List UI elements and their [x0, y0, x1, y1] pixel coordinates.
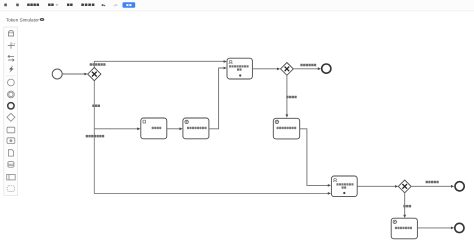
arrowhead into T3: [286, 114, 289, 117]
T1 text: [152, 127, 162, 129]
palette intermediate event: [7, 91, 14, 98]
toolbar text: create diagram (4 chars): [27, 4, 39, 7]
arrowhead into T1: [137, 127, 140, 130]
task T1: [141, 118, 167, 139]
T5 text: [395, 227, 412, 229]
palette space tool: [8, 55, 14, 61]
palette task: [7, 127, 15, 133]
toolbar save button: [123, 2, 136, 8]
toolbar bottom border: [0, 10, 474, 13]
palette subprocess: [7, 138, 15, 144]
palette gateway: [7, 113, 15, 121]
label under branch wire: [86, 135, 105, 138]
end event E2: [455, 182, 464, 191]
gateway G2: [281, 63, 294, 76]
wire start->G1: [62, 73, 85, 75]
T3 text: [277, 127, 297, 129]
task T4: [331, 176, 357, 197]
svg-text:Token Simulator: Token Simulator: [6, 17, 39, 22]
wire T2 -> Ttop (lower entry): [209, 68, 224, 129]
wire T1 -> T2: [167, 128, 180, 130]
palette container: [4, 27, 18, 196]
T4 text line2: [342, 186, 347, 188]
wire G1 bottom long down & right -> T4 lower: [94, 81, 328, 193]
arrowhead into E1: [318, 67, 321, 70]
end event E1: [322, 64, 331, 73]
palette data object: [8, 150, 13, 156]
palette start event: [7, 79, 14, 86]
arrowhead into T4 lower: [328, 192, 331, 195]
label above G1: [90, 63, 106, 66]
palette data store: [8, 162, 14, 168]
toolbar icon menu: [4, 4, 7, 7]
token simulator toggle: [6, 17, 44, 22]
end event E3: [455, 223, 464, 232]
arrowhead into T4 upper: [328, 184, 331, 187]
wire T3 -> T4 upper: [300, 129, 329, 186]
arrowhead into G2: [277, 68, 280, 71]
Ttop text line2: [237, 68, 242, 70]
label on G1 down wire (shen pi zhong): [92, 105, 100, 108]
toolbar text: collapse all (4 chars): [81, 4, 94, 7]
palette global connect tool: [9, 65, 14, 73]
Ttop loop marker: [239, 74, 241, 76]
task T5: [391, 218, 417, 239]
palette hand tool: [8, 31, 13, 36]
task Ttop: [227, 58, 252, 79]
arrowhead into T2: [179, 127, 182, 130]
wire T4 -> G3: [357, 185, 395, 187]
task T2: [183, 118, 209, 139]
toolbar icon redo (disabled): [114, 4, 117, 6]
wire T5 -> E3: [418, 227, 452, 229]
palette participant: [7, 175, 16, 180]
arrowhead into Ttop lower: [224, 67, 227, 70]
T2 text: [187, 127, 207, 129]
wire G3 -> E2: [411, 185, 451, 187]
toolbar background: [0, 0, 474, 11]
arrowhead into E2: [451, 185, 454, 188]
wire G1 branch -> T1: [94, 128, 138, 130]
wire G2 bottom -> T3: [286, 76, 288, 115]
wire Ttop -> G2: [253, 68, 278, 70]
label on G2 down wire: [286, 96, 296, 99]
arrowhead into G1: [84, 73, 87, 76]
gateway G3: [398, 180, 411, 193]
gateway G1: [88, 68, 101, 81]
toolbar text: import: [67, 4, 73, 7]
arrowhead into Ttop upper: [224, 60, 227, 63]
wire G1 top -> task Ttop (upper): [94, 61, 224, 67]
start event: [52, 69, 62, 79]
wire G3 bottom -> T5: [404, 193, 406, 215]
toolbar text: template dropdown: [48, 4, 58, 7]
label on G3 down wire: [403, 205, 411, 208]
palette group: [7, 186, 14, 192]
wire G2 -> end E1: [294, 68, 319, 70]
arrowhead into E3: [451, 227, 454, 230]
Ttop text line1: [229, 65, 249, 67]
palette lasso tool: [8, 42, 15, 48]
palette separator: [6, 75, 15, 78]
T4 text line1: [336, 183, 353, 185]
toolbar icon undo: [102, 4, 105, 6]
task T3: [273, 118, 299, 139]
arrowhead into T5: [403, 215, 406, 218]
T4 loop marker: [343, 192, 345, 194]
label above wire G2->E1: [300, 64, 316, 67]
palette end event: [8, 103, 14, 109]
arrowhead into G3: [395, 185, 398, 188]
toolbar icon file: [16, 4, 19, 7]
label above wire G3->E2: [426, 181, 439, 184]
